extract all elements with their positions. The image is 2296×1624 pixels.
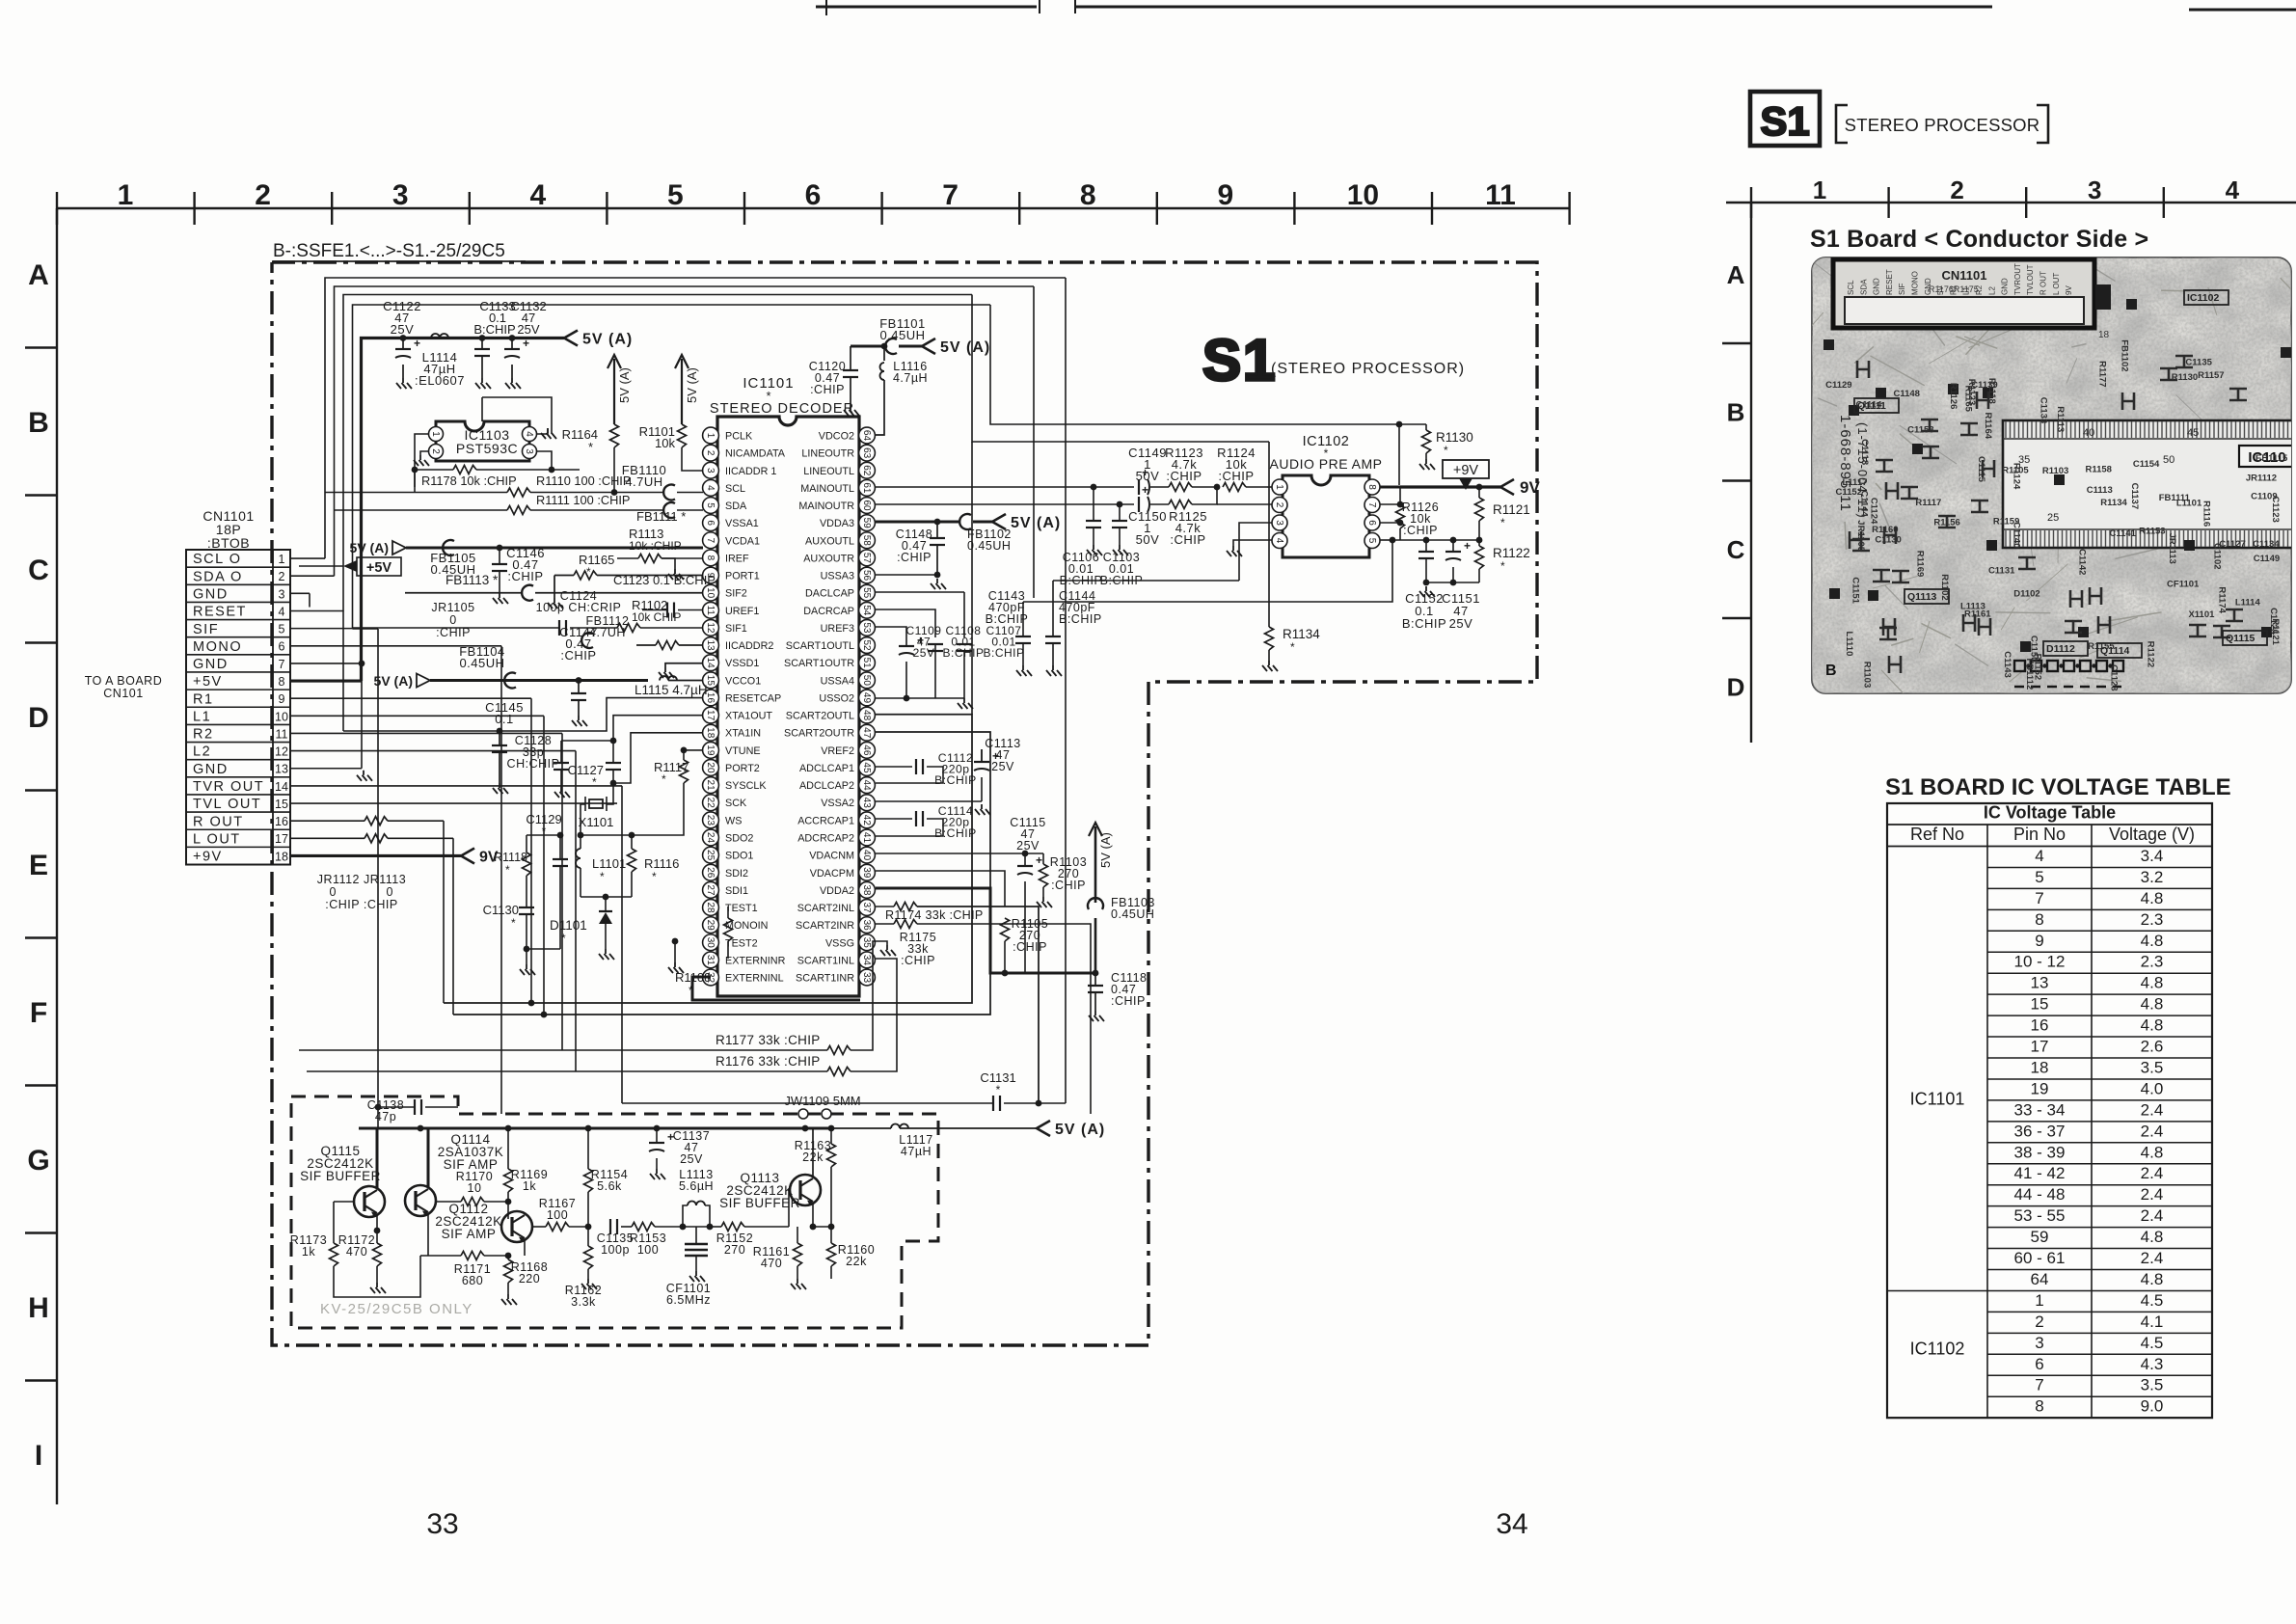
svg-text:5V (A): 5V (A) [1011, 515, 1061, 531]
diode D1101 [581, 896, 632, 898]
IC1101 pin 56 USSA3 [859, 567, 876, 583]
resistor R1164 [610, 424, 619, 447]
svg-text:MONO: MONO [193, 639, 242, 655]
svg-text:+: + [1464, 539, 1471, 553]
svg-text:S1 BOARD IC VOLTAGE TABLE: S1 BOARD IC VOLTAGE TABLE [1885, 774, 2231, 800]
resistor R1152 [710, 1226, 721, 1228]
svg-text:XTA1IN: XTA1IN [725, 728, 761, 740]
svg-text:S1 Board < Conductor Side >: S1 Board < Conductor Side > [1810, 226, 2148, 253]
svg-text:FB1102: FB1102 [2120, 339, 2130, 371]
9V arrow at CN1101 [461, 848, 474, 863]
svg-text:R OUT: R OUT [2039, 271, 2048, 295]
IC1101 pin 17 XTA1OUT [703, 707, 719, 723]
svg-text:48: 48 [861, 710, 872, 721]
wire SIF feed vertical [457, 1107, 459, 1114]
svg-text:R1110 100 :CHIP: R1110 100 :CHIP [536, 474, 631, 488]
svg-text:13: 13 [275, 763, 288, 776]
svg-text:R1130: R1130 [2172, 372, 2198, 383]
wire IC1103 pin4 ground [537, 428, 548, 434]
IC1101 pin 50 USSA4 [859, 672, 876, 689]
svg-text:SCART2OUTL: SCART2OUTL [786, 711, 854, 722]
wire pin7 vertical [1399, 424, 1401, 540]
ground C1133 [475, 378, 491, 389]
transistor Q1114 [405, 1185, 436, 1216]
svg-text:100p: 100p [601, 1243, 630, 1257]
svg-text:PORT2: PORT2 [725, 763, 760, 774]
svg-text:ADCRCAP2: ADCRCAP2 [797, 832, 854, 844]
svg-text:22: 22 [705, 798, 716, 809]
resistor R1116 [628, 849, 636, 872]
5V(A) arrow VCCO1 [417, 674, 430, 688]
svg-text:2: 2 [430, 448, 441, 454]
schematic boundary dash-dot frame [272, 262, 1537, 1345]
svg-text:S1: S1 [1760, 98, 1809, 144]
svg-text::CHIP: :CHIP [810, 383, 845, 396]
wire IC1103 pin1 [415, 434, 428, 487]
svg-text:USSO2: USSO2 [819, 692, 854, 704]
svg-text:AUXOUTR: AUXOUTR [803, 553, 854, 564]
svg-text:C1128: C1128 [2108, 664, 2119, 690]
svg-text:TVROUT: TVROUT [2013, 263, 2022, 295]
svg-text:5: 5 [1366, 538, 1377, 544]
svg-text:L2: L2 [1987, 286, 1996, 295]
capacitor C1132 [509, 335, 516, 341]
svg-text:SDA O: SDA O [193, 569, 243, 584]
svg-text:2.6: 2.6 [2141, 1038, 2164, 1056]
svg-text:EXTERNINL: EXTERNINL [725, 973, 784, 985]
wire IC1102 pin4 ground [1233, 540, 1272, 546]
capacitor C1145 [497, 728, 503, 735]
svg-text:52: 52 [861, 639, 872, 651]
svg-text:12: 12 [275, 745, 288, 759]
svg-text:4: 4 [1274, 538, 1284, 544]
IC1101 pin 1 PCLK [703, 427, 719, 444]
svg-text:59: 59 [2031, 1228, 2049, 1246]
svg-text:D1112: D1112 [2046, 643, 2075, 655]
resistor R1125 [1169, 501, 1192, 509]
svg-text:34: 34 [861, 955, 872, 966]
svg-text:15: 15 [275, 798, 288, 811]
svg-text:SCK: SCK [725, 798, 747, 809]
svg-text:S1: S1 [1202, 328, 1277, 392]
svg-text:R1121: R1121 [1493, 502, 1530, 517]
IC1101 pin 7 VCDA1 [703, 532, 719, 549]
inductor L1115 [660, 676, 677, 680]
svg-text:+: + [1036, 853, 1042, 867]
5V(A) arrow top rail [564, 331, 578, 346]
svg-text:JR1105: JR1105 [431, 601, 474, 614]
svg-text:50: 50 [861, 675, 872, 687]
svg-text:10k :CHIP: 10k :CHIP [629, 539, 682, 553]
svg-text:C1131: C1131 [1988, 565, 2015, 576]
svg-text:22k: 22k [846, 1255, 867, 1268]
svg-text:SDA: SDA [1859, 279, 1868, 295]
svg-text:B:CHIP: B:CHIP [934, 773, 977, 787]
svg-text:TEST1: TEST1 [725, 903, 758, 914]
svg-text:MAINOUTR: MAINOUTR [798, 501, 854, 512]
svg-text:C1143: C1143 [2002, 651, 2012, 677]
capacitor C1146 [497, 545, 503, 552]
svg-text:SIF: SIF [193, 622, 219, 637]
svg-text:+5V: +5V [366, 560, 392, 576]
wire R1173 bottom [334, 1256, 420, 1297]
svg-text:17: 17 [275, 832, 288, 846]
svg-text:57: 57 [861, 553, 872, 564]
svg-text:21: 21 [705, 780, 716, 792]
svg-text::CHIP: :CHIP [507, 569, 543, 583]
svg-text:D1101: D1101 [550, 918, 587, 933]
svg-text:2: 2 [279, 570, 285, 583]
ground C1145 [493, 783, 508, 794]
svg-text:IC1102: IC1102 [2187, 292, 2219, 304]
wire Q1113 out [831, 1114, 868, 1227]
transistor Q1115 [354, 1186, 385, 1217]
svg-text:R1122: R1122 [2146, 641, 2156, 667]
svg-text:IREF: IREF [725, 553, 749, 564]
svg-text:3.5: 3.5 [2141, 1376, 2164, 1394]
svg-text:SCART1OUTL: SCART1OUTL [786, 640, 854, 652]
capacitor C1143 [1022, 602, 1024, 636]
svg-text:1: 1 [1813, 176, 1826, 204]
svg-text:25: 25 [705, 850, 716, 861]
svg-text:SCL O: SCL O [193, 552, 241, 567]
svg-text:KV-25/29C5B ONLY: KV-25/29C5B ONLY [320, 1301, 473, 1317]
svg-text:L1101: L1101 [592, 856, 626, 871]
right page row ruler [1750, 203, 1752, 743]
svg-text:1: 1 [2035, 1291, 2043, 1310]
svg-text:R1159: R1159 [1993, 517, 2019, 528]
svg-text:*: * [588, 440, 593, 454]
photo: IC1101 footprint [2003, 420, 2296, 548]
svg-text:SDA: SDA [725, 501, 747, 512]
IC1101 pin 9 PORT1 [703, 567, 719, 583]
crystal X1101 [589, 799, 603, 808]
svg-text:3: 3 [392, 179, 409, 211]
svg-text:5V (A): 5V (A) [582, 332, 633, 348]
IC1101 pin 2 NICAMDATA [703, 445, 719, 461]
wire ACCRCAP1 C1114 [876, 818, 912, 820]
svg-text:R1: R1 [193, 691, 214, 707]
IC1101 pin 54 DACRCAP [859, 602, 876, 618]
wire SCART1INR R1177 [859, 976, 861, 978]
wire transistor rail thick [359, 1127, 831, 1130]
filter CF1101 [683, 1226, 710, 1228]
svg-text:4.8: 4.8 [2141, 974, 2164, 992]
svg-text:3: 3 [2035, 1334, 2043, 1352]
resistor R1118 [523, 853, 531, 876]
resistor R1174 [894, 903, 917, 911]
svg-text:25V: 25V [1449, 616, 1473, 631]
svg-text:9V: 9V [2065, 285, 2073, 295]
resistor R1154 [584, 1169, 593, 1192]
IC1102 pin 3 [1272, 515, 1287, 530]
resistor R1160 [827, 1243, 836, 1266]
capacitor C1118 [1094, 973, 1096, 986]
resistor R1163 [827, 1144, 836, 1167]
svg-text:GND: GND [193, 762, 229, 777]
IC1101 pin 37 SCART2INL [859, 900, 876, 916]
svg-text:100: 100 [547, 1208, 568, 1222]
IC1103 regulator [436, 421, 529, 461]
capacitor C1135 [588, 1226, 608, 1228]
resistor R1108 [724, 918, 733, 941]
svg-text:SDI2: SDI2 [725, 868, 748, 880]
svg-text::CHIP: :CHIP [1403, 524, 1438, 537]
svg-text:XTA1OUT: XTA1OUT [725, 711, 772, 722]
wire IC1103 pin3 [537, 451, 580, 470]
svg-text:C1115: C1115 [1976, 456, 1986, 483]
svg-text:+9V: +9V [1453, 463, 1479, 478]
IC1101 pin 32 EXTERNINL [703, 969, 719, 986]
IC1101 pin 43 VSSA2 [859, 795, 876, 811]
svg-text:VSSD1: VSSD1 [725, 658, 759, 669]
svg-text:3: 3 [2088, 176, 2101, 204]
svg-text:50: 50 [2163, 454, 2174, 466]
svg-text:63: 63 [861, 447, 872, 459]
junction R1130 [1396, 421, 1403, 428]
S1 title box [1750, 92, 1820, 146]
svg-text:C1144: C1144 [1859, 490, 1870, 517]
svg-text:Pin No: Pin No [2013, 825, 2066, 844]
bead FB1101 cluster [881, 343, 888, 350]
svg-text:B:CHIP: B:CHIP [473, 322, 515, 337]
svg-text:*: * [561, 932, 566, 945]
svg-text:17: 17 [705, 710, 716, 721]
svg-text:4.7UH: 4.7UH [625, 474, 662, 489]
svg-text:3.2: 3.2 [2141, 868, 2164, 886]
svg-text:LINEOUTR: LINEOUTR [801, 448, 854, 460]
svg-text::CHIP: :CHIP [1013, 940, 1047, 954]
inductor L1117 [891, 1124, 908, 1129]
svg-text:R1134: R1134 [1283, 627, 1320, 641]
wire IREF pin8 [617, 557, 638, 559]
svg-text:CF1101: CF1101 [2167, 580, 2200, 590]
svg-text:SIF1: SIF1 [725, 623, 747, 635]
svg-text:R1176 33k :CHIP: R1176 33k :CHIP [716, 1054, 821, 1069]
svg-text:6: 6 [1366, 520, 1377, 526]
svg-text:(STEREO PROCESSOR): (STEREO PROCESSOR) [1271, 361, 1465, 377]
svg-text:*: * [511, 916, 516, 930]
inductor L1101 [576, 849, 581, 868]
IC1101 pin 40 VDACNM [859, 847, 876, 863]
wire XTA1IN [613, 733, 703, 783]
IC1101 pin 59 VDDA3 [859, 515, 876, 531]
svg-text:Voltage (V): Voltage (V) [2109, 825, 2195, 844]
S1 title bracket text STEREO PROCESSOR [1836, 105, 2048, 143]
svg-text:R1177: R1177 [2096, 361, 2107, 387]
svg-text:R1113: R1113 [2055, 406, 2066, 432]
svg-text:SCART2INR: SCART2INR [796, 920, 854, 932]
svg-text:4: 4 [705, 485, 716, 491]
wire bus right verticals [1065, 278, 1067, 1103]
5V(A) arrow transistor rail [1037, 1121, 1050, 1136]
wire CN row3 GND stub [290, 592, 310, 594]
svg-text:B:CHIP: B:CHIP [1059, 612, 1102, 626]
svg-text:36: 36 [861, 920, 872, 932]
svg-text:40: 40 [2083, 427, 2094, 439]
svg-text:11: 11 [276, 727, 288, 741]
svg-text::CHIP: :CHIP [560, 648, 596, 663]
svg-text:39: 39 [861, 867, 872, 879]
svg-text:19: 19 [705, 744, 716, 756]
svg-text:B:CHIP: B:CHIP [1060, 574, 1103, 587]
svg-text:+5V: +5V [193, 674, 223, 690]
wire Q1114 emitter [427, 1214, 429, 1256]
svg-text:24: 24 [705, 832, 716, 844]
capacitor C1129 [553, 858, 568, 860]
IC1101 pin 41 ADCRCAP2 [859, 829, 876, 846]
wire EXTERNIN thick [692, 977, 860, 1000]
capacitor C1147 [576, 677, 582, 684]
svg-text:R1111 100 :CHIP: R1111 100 :CHIP [536, 493, 630, 507]
capacitor C1115 [1024, 853, 1026, 866]
bead FB1110 [663, 485, 675, 501]
svg-text:16: 16 [2031, 1016, 2049, 1035]
svg-text:1k: 1k [302, 1245, 315, 1259]
svg-text:SIF: SIF [1898, 283, 1906, 295]
svg-text:14: 14 [705, 658, 716, 669]
svg-text::CHIP: :CHIP [436, 626, 471, 639]
svg-text:EXTERNINR: EXTERNINR [725, 955, 786, 966]
svg-text:EB1115: EB1115 [2255, 453, 2288, 464]
svg-text:R1177 33k :CHIP: R1177 33k :CHIP [716, 1033, 821, 1047]
9V arrow [1500, 479, 1514, 495]
dashed option box [291, 1096, 938, 1328]
svg-text:41: 41 [861, 832, 872, 844]
svg-text:20: 20 [705, 762, 716, 773]
IC1101 pin 53 UREF3 [859, 620, 876, 636]
IC1103 pin 4 [523, 427, 537, 442]
wire VDACNM [876, 853, 1025, 854]
svg-text:B:CHIP: B:CHIP [942, 646, 984, 660]
svg-text:4.3: 4.3 [2141, 1355, 2164, 1373]
transistor Q1112 [501, 1211, 532, 1242]
capacitor C1137 [649, 1142, 664, 1144]
svg-text:C1127: C1127 [568, 763, 604, 777]
svg-text:SCL: SCL [725, 483, 745, 495]
svg-text:50V: 50V [1136, 532, 1160, 547]
svg-text:R1169: R1169 [1914, 551, 1925, 577]
svg-text:D1102: D1102 [2013, 588, 2039, 599]
resistor R1123 [1169, 483, 1192, 492]
svg-text:17: 17 [2031, 1038, 2049, 1056]
resistor R1176 [307, 1070, 827, 1072]
IC1101 pin 31 EXTERNINR [703, 952, 719, 968]
svg-text:SCART1OUTR: SCART1OUTR [784, 658, 854, 669]
svg-text:NICAMDATA: NICAMDATA [725, 448, 786, 460]
svg-text:60: 60 [861, 500, 872, 511]
svg-text:0.45UH: 0.45UH [1111, 907, 1154, 921]
svg-text:*: * [1444, 444, 1448, 457]
wire Q1115 collector [376, 1128, 379, 1188]
IC1102 pin 8 [1364, 479, 1380, 495]
svg-text:*: * [1500, 516, 1505, 529]
svg-text:E: E [29, 850, 48, 881]
svg-text:38: 38 [861, 884, 872, 896]
capacitor C1106 [1093, 487, 1094, 521]
svg-text:50V: 50V [1136, 469, 1160, 483]
ground IC1103 pin2 [420, 451, 428, 455]
capacitor C1113 [981, 749, 983, 762]
capacitor C1131 [622, 1102, 993, 1104]
IC1101 stereo decoder body [717, 417, 859, 996]
bead FB1105 [443, 540, 454, 555]
wire CN row11 R2 [290, 732, 562, 734]
wire IC1102 pin2 [1256, 503, 1272, 505]
resistor R1121 [1478, 487, 1480, 498]
svg-text:R1118: R1118 [1986, 378, 1997, 404]
svg-text:44 - 48: 44 - 48 [2014, 1185, 2066, 1204]
svg-text:36 - 37: 36 - 37 [2014, 1122, 2066, 1140]
IC1101 pin 33 SCART1INR [859, 969, 876, 986]
svg-text:SCART2INL: SCART2INL [797, 903, 854, 914]
svg-text:0.45UH: 0.45UH [967, 539, 1011, 553]
svg-text:10 - 12: 10 - 12 [2014, 953, 2066, 971]
svg-text::CHIP: :CHIP [1166, 469, 1202, 483]
wire MAINOUTL [876, 486, 1134, 488]
wire ADCLCAP1 C1112 [876, 766, 912, 768]
svg-text:DACRCAP: DACRCAP [803, 606, 854, 617]
svg-text::EL0607: :EL0607 [415, 373, 465, 388]
svg-text:4.7µH: 4.7µH [893, 371, 928, 385]
svg-text:6: 6 [279, 640, 285, 654]
svg-text:2.4: 2.4 [2141, 1185, 2164, 1204]
svg-text:R1156: R1156 [1933, 518, 1959, 528]
capacitor C1103 [1119, 504, 1121, 521]
svg-text:R1165: R1165 [579, 553, 614, 567]
svg-text:R1105: R1105 [2002, 465, 2029, 475]
wire CN row4 RESET stub [290, 609, 343, 611]
resistor R1167 [532, 1226, 546, 1228]
svg-text:47µH: 47µH [901, 1145, 932, 1158]
svg-text:R1116: R1116 [644, 856, 679, 871]
svg-text:R1126: R1126 [1948, 383, 1958, 409]
svg-text:100: 100 [637, 1243, 659, 1257]
wire C115x bottom [1426, 582, 1479, 583]
svg-text:L1114: L1114 [2235, 597, 2261, 608]
wire ADCLCAP2 [876, 782, 912, 784]
svg-text:C1125: C1125 [2268, 608, 2279, 635]
svg-text:55: 55 [861, 587, 872, 599]
IC1101 pin 24 SDO2 [703, 829, 719, 846]
resistor R1168 [504, 1259, 513, 1283]
svg-text:L1110: L1110 [1844, 631, 1854, 656]
svg-text:2.3: 2.3 [2141, 910, 2164, 929]
svg-text:29: 29 [705, 920, 716, 932]
wire CN row12 L2 [290, 750, 576, 752]
IC1102 pin 6 [1364, 515, 1380, 530]
resistor R1170 [436, 1201, 461, 1203]
wire SIF1 pin12 [353, 627, 560, 629]
svg-text:25V: 25V [1016, 839, 1040, 853]
svg-text:2.4: 2.4 [2141, 1122, 2164, 1140]
svg-text:LINEOUTL: LINEOUTL [803, 466, 854, 477]
IC1101 pin 20 PORT2 [703, 760, 719, 776]
svg-text:I: I [35, 1440, 42, 1472]
svg-text:7: 7 [942, 179, 959, 211]
capacitor C1120 [850, 346, 851, 370]
svg-text:R1108: R1108 [675, 970, 711, 985]
svg-text:TVLOUT: TVLOUT [2026, 264, 2035, 295]
svg-text:WS: WS [725, 815, 742, 826]
bead FB1103 [1088, 898, 1103, 909]
svg-text:C1130: C1130 [483, 903, 519, 917]
5V(A) arrow mid feed [392, 541, 406, 555]
svg-text:RESET: RESET [193, 605, 247, 620]
bead FB1111 wire [663, 502, 675, 518]
svg-text:DACLCAP: DACLCAP [805, 588, 854, 600]
svg-text:RESETCAP: RESETCAP [725, 692, 781, 704]
